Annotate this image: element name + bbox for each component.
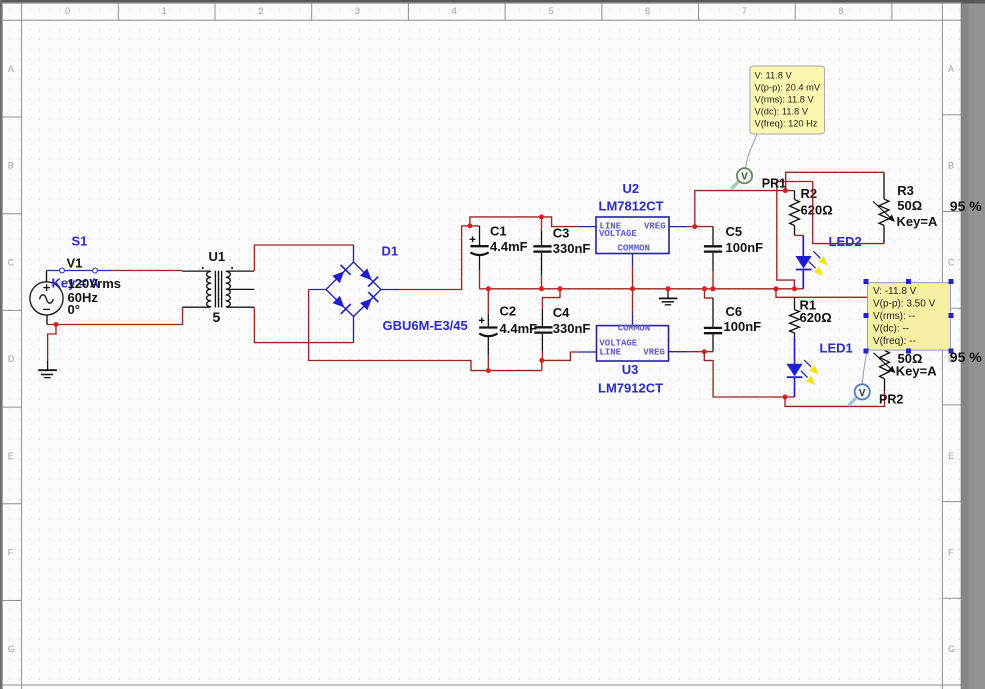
svg-text:F: F [8, 547, 14, 557]
svg-text:330nF: 330nF [553, 321, 591, 336]
junction -12V node [783, 395, 788, 400]
svg-text:B: B [8, 161, 14, 171]
probe PR1 [732, 168, 753, 189]
svg-text:VREG: VREG [643, 348, 665, 358]
junction C3 bottom on rail [539, 286, 544, 291]
capacitor C3 [533, 217, 551, 289]
svg-text:4: 4 [452, 6, 457, 16]
svg-text:E: E [8, 451, 14, 461]
wire bridge plus output up to C1 [399, 226, 470, 290]
svg-text:100nF: 100nF [724, 319, 762, 334]
AC source V1 [30, 282, 63, 315]
bridge rectifier D1 [309, 245, 399, 343]
wire -12V to LED1 cathode [785, 396, 794, 398]
resistor R1 [790, 297, 800, 337]
svg-text:A: A [948, 64, 954, 74]
wire U3 VREG output [686, 351, 713, 353]
svg-text:E: E [948, 451, 954, 461]
wire secondary bottom to bridge bottom [254, 307, 353, 342]
probe PR2 leader line [862, 351, 867, 385]
diode top-left [332, 265, 350, 283]
svg-text:620Ω: 620Ω [800, 310, 832, 325]
svg-text:620Ω: 620Ω [801, 203, 833, 218]
junction C6 jog on rail [702, 286, 707, 291]
resistor R2 [790, 191, 800, 236]
svg-text:4.4mF: 4.4mF [500, 321, 538, 336]
junction C4 jog on rail [558, 286, 563, 291]
svg-text:100nF: 100nF [726, 240, 764, 255]
wire -12V jog down [704, 352, 785, 397]
voltage regulator U2 [579, 217, 687, 266]
svg-text:U2: U2 [623, 181, 640, 196]
svg-text:C: C [948, 257, 955, 267]
svg-text:LED1: LED1 [820, 340, 853, 355]
svg-text:COMMON: COMMON [618, 243, 650, 253]
switch S1 [47, 268, 111, 273]
svg-text:B: B [948, 161, 954, 171]
svg-text:V(rms): --: V(rms): -- [873, 311, 915, 322]
svg-text:LINE: LINE [599, 348, 621, 358]
measurement box PR1 [750, 66, 825, 134]
svg-text:V(freq): --: V(freq): -- [873, 336, 916, 347]
V1 bottom pin [46, 315, 48, 325]
svg-text:V(freq): 120 Hz: V(freq): 120 Hz [755, 119, 818, 129]
junction U3 output [702, 349, 707, 354]
wire +12V up and right to PR1 node [695, 191, 786, 227]
wire -12V branch to potentiometer R4 [785, 390, 885, 406]
svg-text:U1: U1 [209, 249, 226, 264]
svg-text:GBU6M-E3/45: GBU6M-E3/45 [383, 318, 468, 333]
LED1 [786, 338, 802, 397]
potentiometer R4 (50 ohm) [874, 350, 896, 391]
svg-text:V: V [741, 172, 748, 183]
probe PR2 [849, 384, 870, 405]
svg-text:C: C [8, 257, 15, 267]
junction C2 bottom [486, 368, 491, 373]
svg-text:7: 7 [742, 6, 747, 16]
svg-text:V(rms): 11.8 V: V(rms): 11.8 V [755, 95, 815, 105]
wire PR1 node up to R3 top [786, 172, 884, 190]
wire PR1 node to R2 [785, 190, 794, 192]
wire R3 bottom return [777, 182, 884, 289]
svg-text:G: G [8, 644, 15, 654]
junction at V1 bottom [54, 322, 59, 327]
voltage regulator U3 [579, 312, 687, 361]
svg-text:LM7812CT: LM7812CT [599, 199, 664, 214]
svg-text:5: 5 [548, 6, 553, 16]
svg-text:C2: C2 [500, 304, 517, 319]
junction plus node at C1 [467, 223, 472, 228]
svg-text:C3: C3 [553, 225, 570, 240]
wire bridge minus output to lower rail [309, 290, 542, 371]
wire plus node top run [470, 217, 542, 226]
potentiometer R3 [873, 172, 895, 243]
svg-text:D1: D1 [382, 243, 399, 258]
ground (source) [38, 361, 57, 378]
svg-text:95 %: 95 % [950, 349, 982, 365]
svg-text:V(p-p): 3.50 V: V(p-p): 3.50 V [873, 298, 936, 309]
junction C5 bottom on rail [710, 286, 715, 291]
svg-text:Key=A: Key=A [896, 363, 937, 378]
svg-text:120Vrms: 120Vrms [68, 276, 122, 291]
svg-text:D: D [8, 354, 15, 364]
svg-text:95 %: 95 % [950, 198, 982, 214]
svg-text:VREG: VREG [644, 222, 666, 232]
junction C2 top on rail [486, 286, 491, 291]
svg-text:LM7912CT: LM7912CT [598, 380, 663, 395]
junction top run at C3 [539, 214, 544, 219]
wire C4 bottom to U3 LINE [542, 352, 578, 360]
svg-text:C1: C1 [490, 224, 507, 239]
wire secondary top to bridge top [254, 245, 353, 271]
transformer U1 [182, 267, 254, 308]
svg-text:A: A [8, 64, 14, 74]
capacitor C1 (polarized) [470, 226, 489, 271]
svg-text:PR1: PR1 [762, 177, 786, 191]
junction ground on rail [666, 286, 671, 291]
wire C4 node down to lower rail [541, 360, 543, 370]
capacitor C2 (polarized) [479, 289, 498, 371]
wire junction to ground jog [48, 325, 56, 362]
svg-text:1: 1 [162, 6, 167, 16]
svg-text:S1: S1 [72, 233, 88, 248]
ground (rail) [659, 289, 678, 305]
selection handles [864, 279, 954, 354]
svg-text:2: 2 [258, 6, 263, 16]
probe PR1 leader line [746, 134, 758, 169]
svg-text:C6: C6 [726, 304, 743, 319]
diode top-right [360, 268, 378, 286]
svg-text:R2: R2 [801, 186, 818, 201]
svg-text:V(p-p): 20.4 mV: V(p-p): 20.4 mV [755, 83, 821, 93]
svg-text:330nF: 330nF [553, 241, 591, 256]
ground rail [480, 288, 804, 290]
svg-text:LED2: LED2 [829, 234, 862, 249]
svg-text:50Ω: 50Ω [897, 198, 922, 213]
svg-text:V1: V1 [67, 255, 83, 270]
svg-text:F: F [948, 547, 954, 557]
svg-text:U3: U3 [622, 362, 639, 377]
svg-text:C5: C5 [726, 224, 743, 239]
wire top run to U2 LINE [542, 217, 579, 227]
svg-text:V(dc): --: V(dc): -- [873, 323, 909, 334]
V1 top pin [46, 271, 48, 282]
svg-text:PR2: PR2 [879, 392, 903, 406]
capacitor C5 [695, 227, 722, 289]
svg-text:Key=A: Key=A [897, 214, 938, 229]
svg-text:5: 5 [213, 309, 221, 325]
svg-text:3: 3 [355, 6, 360, 16]
svg-text:COMMON: COMMON [618, 323, 650, 333]
svg-text:4.4mF: 4.4mF [490, 239, 528, 254]
junction COMMON on rail [630, 286, 635, 291]
wire switch to transformer primary top [111, 270, 183, 272]
svg-text:8: 8 [839, 6, 844, 16]
junction U2 output [692, 224, 697, 229]
svg-text:V(dc): 11.8 V: V(dc): 11.8 V [755, 107, 809, 117]
svg-text:V: -11.8 V: V: -11.8 V [873, 286, 917, 297]
capacitor C6 [704, 289, 722, 352]
svg-text:G: G [948, 644, 955, 654]
svg-text:V: 11.8 V: V: 11.8 V [755, 71, 793, 81]
LED1 arrows [801, 360, 819, 385]
diode bottom-right [360, 292, 378, 310]
junction R3 return on rail [792, 286, 797, 291]
measurement box PR2 (selected) [868, 283, 951, 351]
svg-text:C4: C4 [553, 305, 570, 320]
wire U2 VREG output [686, 226, 695, 228]
svg-text:0: 0 [65, 6, 70, 16]
junction C4 bottom node [539, 358, 544, 363]
diode bottom-left [333, 296, 351, 314]
wire C1 bottom to ground rail [479, 270, 481, 289]
svg-text:R3: R3 [897, 183, 914, 198]
svg-text:6: 6 [645, 6, 650, 16]
LED2 [795, 235, 811, 288]
svg-text:V: V [859, 388, 866, 399]
wire R2 to LED2 [795, 234, 804, 236]
wire ground rail down to R1 row [776, 289, 867, 298]
svg-text:0°: 0° [68, 302, 80, 317]
wire primary bottom to V1 [47, 307, 183, 324]
LED2 arrows [809, 251, 828, 275]
junction PR1 node [783, 188, 788, 193]
svg-text:VOLTAGE: VOLTAGE [599, 229, 637, 239]
junction rail to lower branch [774, 286, 779, 291]
wire U2 COMMON to rail to U3 COMMON [632, 266, 634, 312]
capacitor C4 [534, 289, 560, 361]
